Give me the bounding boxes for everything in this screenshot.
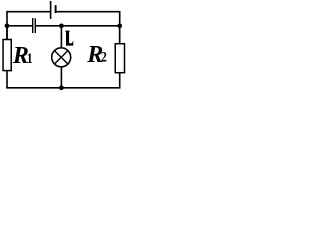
battery B short plate	[55, 5, 57, 13]
wire top-left segment	[7, 12, 50, 40]
wire right vertical below R2	[119, 73, 121, 88]
wire lamp branch upper	[60, 26, 62, 48]
wire bottom	[6, 87, 120, 89]
wire row2 left	[7, 25, 32, 27]
wire left vertical above R1	[6, 26, 8, 40]
lamp X diagonal 1	[55, 51, 68, 64]
wire left vertical below R1	[6, 71, 8, 88]
resistor R2 box	[115, 44, 124, 73]
wire right vertical above R2	[119, 26, 121, 44]
node middle junction	[59, 23, 64, 28]
capacitor C right plate	[34, 18, 36, 33]
resistor R1 box	[3, 40, 11, 71]
battery B long plate	[50, 1, 52, 19]
wire lamp branch lower	[60, 67, 62, 88]
wire row2 right	[36, 25, 120, 27]
node left junction	[5, 23, 10, 28]
svg-text:2: 2	[101, 48, 107, 65]
capacitor C left plate	[32, 18, 34, 33]
lamp L circle	[52, 48, 71, 67]
lamp X diagonal 2	[55, 51, 68, 64]
label L	[65, 31, 73, 46]
svg-text:1: 1	[27, 50, 33, 67]
wire top-right segment	[56, 12, 119, 44]
node right junction	[117, 23, 122, 28]
node bottom junction	[59, 85, 64, 90]
